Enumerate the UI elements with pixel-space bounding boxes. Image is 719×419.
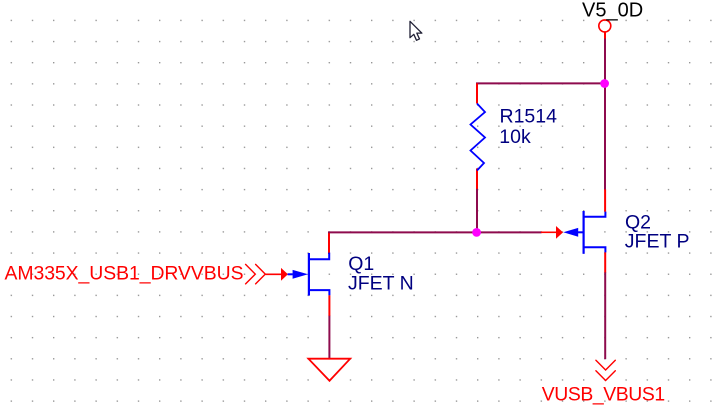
svg-text:JFET P: JFET P [625,231,690,253]
svg-text:R1514: R1514 [500,106,558,128]
svg-text:V5_0D: V5_0D [582,0,643,21]
svg-text:AM335X_USB1_DRVVBUS: AM335X_USB1_DRVVBUS [5,262,244,284]
svg-text:10k: 10k [499,126,531,148]
svg-text:JFET N: JFET N [348,272,414,294]
svg-text:VUSB_VBUS1: VUSB_VBUS1 [542,383,665,405]
